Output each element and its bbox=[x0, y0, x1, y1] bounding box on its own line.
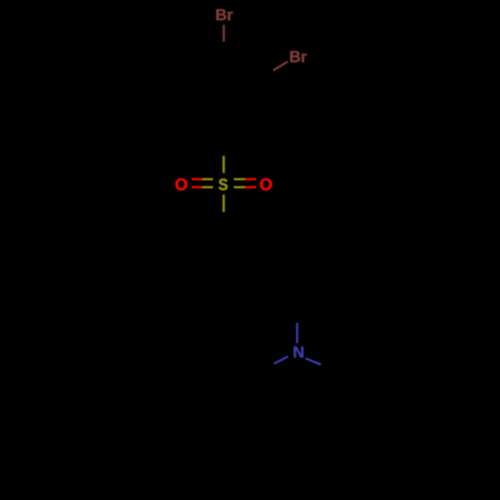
atom label O right bbox=[260, 178, 272, 190]
atom label Br2 bbox=[290, 51, 306, 62]
double bond S=O right, upper line, S half bbox=[234, 178, 245, 180]
bond S-C(aryl) up (visible S half) bbox=[223, 156, 225, 173]
double bond S=O left, lower line, S half bbox=[202, 186, 213, 188]
atom label Br1 bbox=[216, 9, 232, 20]
double bond S=O right, upper line, O half bbox=[245, 178, 257, 180]
bond N-C ring lower-right (visible N half) bbox=[306, 358, 321, 364]
bond C-N up (visible N half) bbox=[296, 323, 298, 343]
bond C3-Br2 (visible Br half) bbox=[273, 62, 287, 71]
bond S-C(methylene) down (visible S half) bbox=[223, 195, 225, 212]
double bond S=O right, lower line, O half bbox=[245, 186, 257, 188]
atom label S (sulfonyl sulfur) bbox=[219, 179, 228, 191]
atom label N (piperidine nitrogen) bbox=[294, 346, 303, 357]
bond C4-Br1 (visible Br half) bbox=[223, 25, 225, 42]
double bond S=O left, upper line, S half bbox=[202, 178, 213, 180]
double bond S=O right, lower line, S half bbox=[234, 186, 245, 188]
double bond S=O left, upper line, O half bbox=[192, 178, 203, 180]
double bond S=O left, lower line, O half bbox=[192, 186, 203, 188]
atom label O left bbox=[175, 178, 187, 190]
bond N-C ring lower-left (visible N half) bbox=[274, 356, 288, 363]
